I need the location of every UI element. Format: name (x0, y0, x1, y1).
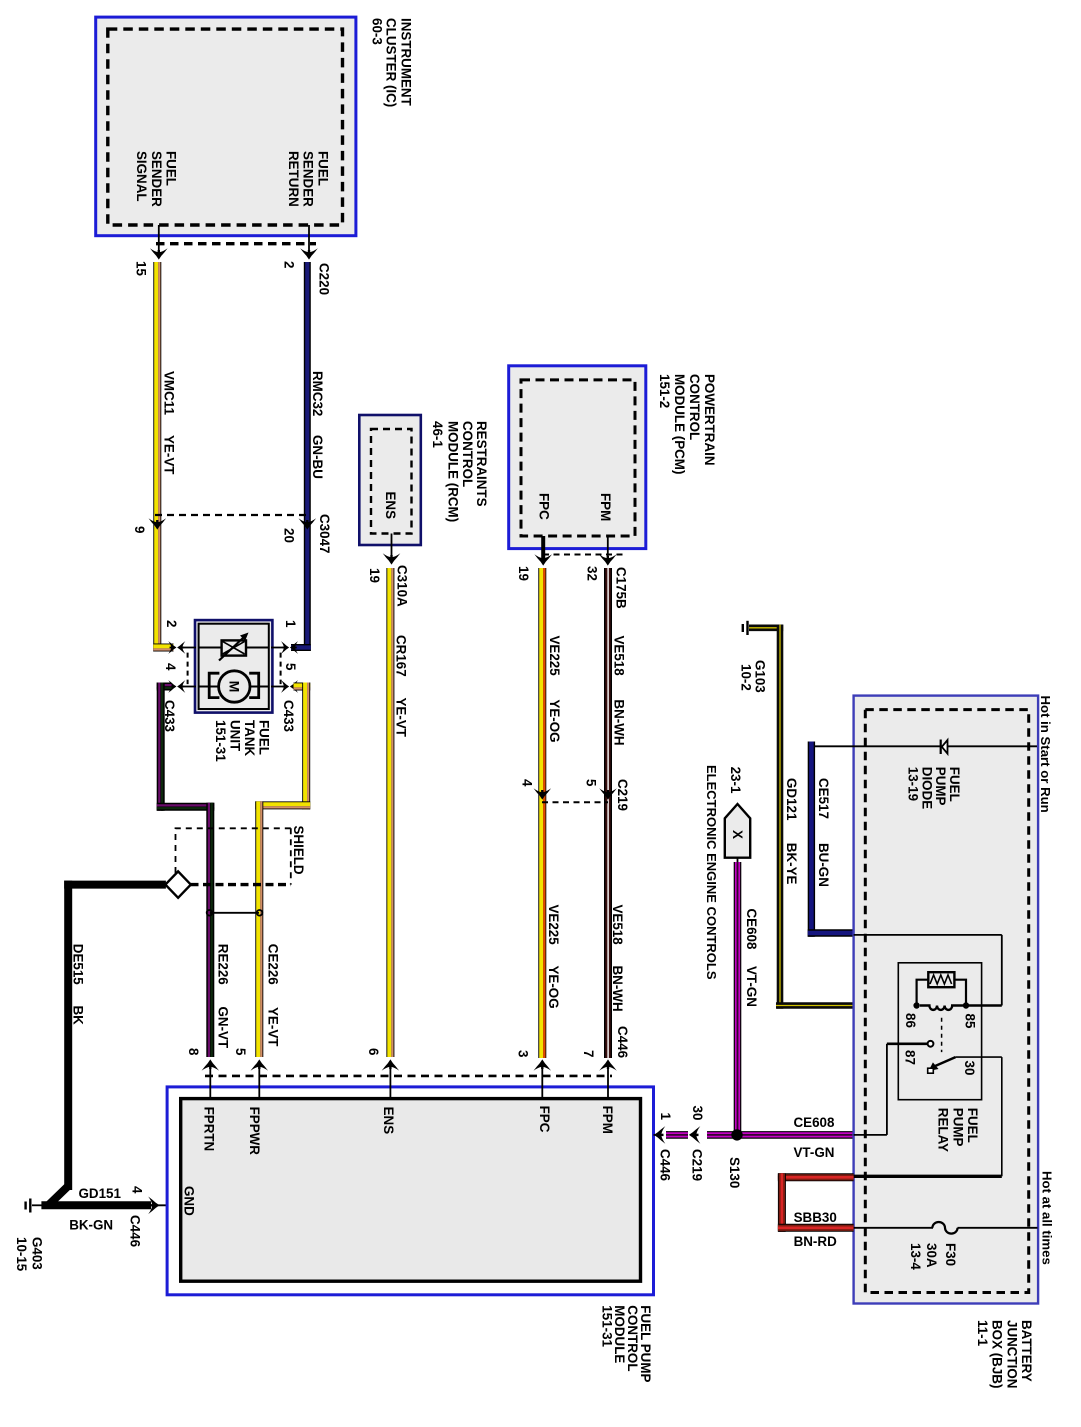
svg-text:F30: F30 (943, 1243, 958, 1266)
svg-text:SHIELD: SHIELD (291, 826, 306, 875)
svg-text:4: 4 (520, 779, 535, 787)
instrument cluster IC box 60-3 (96, 17, 356, 236)
label 23-1 (728, 767, 743, 794)
wire label CE226 YE-VT (265, 944, 280, 1047)
FTU pin2 lead and connector pair (168, 641, 196, 654)
svg-text:Hot in Start or Run: Hot in Start or Run (1038, 696, 1053, 813)
svg-text:C219: C219 (615, 779, 630, 811)
svg-text:TANK: TANK (242, 720, 257, 757)
wire VE225 YE-OG (541, 568, 544, 1058)
pin 1 label (658, 1113, 673, 1121)
FPCM pin label ENS (381, 1107, 396, 1135)
ground G103 label (738, 660, 767, 693)
RCM lead (383, 534, 401, 565)
pin 30 label (690, 1106, 705, 1121)
svg-text:151-31: 151-31 (599, 1305, 614, 1347)
svg-text:15: 15 (134, 261, 149, 276)
wire label VE518 BN-WH lower (610, 905, 625, 1012)
wire label BN-RD (794, 1234, 837, 1249)
svg-text:SIGNAL: SIGNAL (134, 151, 149, 202)
pin 5 label (283, 663, 298, 671)
wire label CE608 (near BJB) (794, 1115, 835, 1130)
fuel tank unit box 151-31 (195, 620, 272, 713)
fuel pump diode label (906, 767, 962, 809)
svg-text:151-31: 151-31 (213, 720, 228, 762)
FPCM pin label FPC (537, 1106, 552, 1133)
PCM pin label FPM (598, 493, 613, 521)
svg-text:YE-VT: YE-VT (394, 698, 409, 738)
svg-text:10-15: 10-15 (14, 1237, 29, 1272)
svg-text:YE-VT: YE-VT (162, 435, 177, 475)
connector C433 dashed right (280, 653, 282, 685)
svg-text:FPPWR: FPPWR (247, 1107, 262, 1156)
BJB title (975, 1320, 1034, 1388)
pin 1 label (283, 620, 298, 628)
wire label SBB30 (794, 1210, 837, 1225)
relay coil line (920, 1006, 1002, 1010)
wire label VE225 YE-OG lower (546, 905, 561, 1009)
svg-text:Hot at all times: Hot at all times (1040, 1171, 1055, 1265)
svg-text:GND: GND (182, 1186, 197, 1216)
PCM pin label FPC (537, 493, 552, 520)
svg-text:SENDER: SENDER (149, 151, 164, 207)
wire label CE517 BU-GN (816, 778, 831, 887)
svg-text:GN-VT: GN-VT (215, 1007, 230, 1049)
svg-text:G403: G403 (29, 1237, 44, 1270)
svg-text:GD151: GD151 (79, 1186, 122, 1201)
FPCM lead FPPWR (250, 1059, 268, 1098)
wire label VMC11 YE-VT (162, 371, 177, 475)
relay pin 85 label (963, 1014, 978, 1029)
CE608 link to relay 87 (854, 1044, 887, 1135)
pin 4 label (163, 663, 178, 671)
svg-text:3: 3 (516, 1050, 531, 1057)
connector C219 arrow (689, 1126, 700, 1144)
svg-text:JUNCTION: JUNCTION (1004, 1320, 1019, 1388)
pin 15 label (134, 261, 149, 276)
relay armature dashed link (941, 1018, 943, 1052)
FPCM pin label GND (182, 1186, 197, 1216)
svg-text:7: 7 (581, 1050, 596, 1057)
svg-text:BK: BK (71, 1006, 86, 1026)
wire label DE515 BK (71, 944, 86, 1025)
svg-text:C446: C446 (615, 1026, 630, 1058)
ground G403 label (14, 1237, 44, 1272)
wire CE608 VT-GN horizontal + S130 branch (666, 862, 853, 1135)
connector C446 label (658, 1149, 673, 1181)
svg-text:FUEL: FUEL (256, 720, 271, 755)
svg-text:C446: C446 (128, 1215, 143, 1247)
FPCM pin label FPM (600, 1106, 615, 1134)
svg-text:CE517: CE517 (816, 778, 831, 819)
pin 5 label (584, 779, 599, 787)
svg-text:MODULE (RCM): MODULE (RCM) (446, 421, 461, 522)
svg-text:19: 19 (367, 568, 382, 583)
svg-text:CONTROL: CONTROL (687, 374, 702, 440)
svg-text:BK-YE: BK-YE (784, 843, 799, 885)
RCM title (430, 421, 489, 522)
instrument cluster title (370, 18, 414, 107)
connector arrow on RMC32 at C3047 (299, 518, 317, 529)
connector C220 label (317, 263, 332, 295)
ground G103 symbol (743, 621, 748, 635)
pin 8 label (186, 1048, 201, 1056)
wire label VE225 YE-OG upper (547, 636, 562, 743)
svg-text:5: 5 (584, 779, 599, 787)
svg-text:4: 4 (163, 663, 178, 671)
svg-text:BOX (BJB): BOX (BJB) (990, 1320, 1005, 1388)
connector C310A label (395, 565, 410, 607)
svg-text:RESTRAINTS: RESTRAINTS (474, 421, 489, 507)
relay switch blade (928, 1057, 956, 1073)
pin 2 label (164, 620, 179, 627)
pin 5 label (233, 1048, 248, 1056)
svg-text:30: 30 (962, 1061, 977, 1076)
wire CE517 BU-GN (808, 742, 854, 937)
svg-text:FUEL: FUEL (164, 151, 179, 186)
connector C433 label left (162, 700, 177, 732)
svg-text:C219: C219 (690, 1149, 705, 1181)
svg-text:1: 1 (283, 620, 298, 628)
svg-text:6: 6 (366, 1048, 381, 1055)
svg-text:CE608: CE608 (794, 1115, 835, 1130)
IC lead fuel sender return (300, 225, 318, 260)
battery junction box BJB 11-1 (854, 696, 1039, 1304)
svg-text:C310A: C310A (395, 565, 410, 607)
fuel pump diode feed line (814, 745, 1037, 747)
wire CE226 YE-VT from pin5 (255, 683, 310, 1058)
wire RE226 GN-VT from pin4 (157, 683, 215, 1058)
wire label GD151 (79, 1186, 122, 1201)
wire CR167 YE-VT (389, 568, 392, 1057)
pin 19 label (516, 566, 531, 581)
fuel pump relay label (936, 1108, 980, 1152)
FPCM title (599, 1305, 653, 1382)
connector C219 label (615, 779, 630, 811)
svg-text:4: 4 (130, 1186, 145, 1194)
svg-text:20: 20 (281, 528, 296, 543)
restraints control module RCM box 46-1 (359, 415, 421, 545)
pin 4 label (520, 779, 535, 787)
FPCM pin label FPRTN (202, 1107, 217, 1152)
connector C3047 label (317, 514, 332, 553)
svg-text:C3047: C3047 (317, 514, 332, 553)
arrow into FPCM pin 1 (654, 1126, 666, 1144)
svg-text:BK-GN: BK-GN (69, 1217, 113, 1232)
connector C3047 dashed line (155, 514, 309, 516)
svg-text:BN-RD: BN-RD (794, 1234, 837, 1249)
wire VMC11 YE-VT vertical (153, 262, 173, 652)
svg-text:ENS: ENS (383, 492, 398, 520)
wire label RMC32 GN-BU (310, 371, 325, 479)
svg-text:ELECTRONIC ENGINE CONTROLS: ELECTRONIC ENGINE CONTROLS (704, 765, 719, 980)
connector C433 dashed left (187, 653, 189, 685)
wire DE515 BK thick black (41, 881, 165, 1206)
RCM pin label ENS (383, 492, 398, 520)
connector C219 arrows mid (534, 788, 617, 799)
svg-text:13-4: 13-4 (908, 1243, 923, 1270)
pin 7 label (581, 1050, 596, 1057)
svg-text:M: M (226, 681, 242, 693)
shield dashed box (176, 828, 291, 884)
shield tie line with circles (207, 910, 263, 916)
svg-text:FUEL: FUEL (965, 1108, 980, 1143)
SHIELD label (291, 826, 306, 875)
svg-text:RETURN: RETURN (286, 151, 301, 207)
svg-text:BN-WH: BN-WH (610, 966, 625, 1012)
wire label VE518 BN-WH upper (612, 636, 627, 746)
svg-text:5: 5 (283, 663, 298, 671)
powertrain control module PCM box 151-2 (509, 366, 646, 549)
ground G403 symbol (26, 1199, 42, 1213)
svg-text:151-2: 151-2 (657, 374, 672, 408)
svg-text:BN-WH: BN-WH (612, 699, 627, 745)
svg-text:85: 85 (963, 1014, 978, 1029)
svg-text:VE518: VE518 (612, 636, 627, 677)
FPCM lead FPM (599, 1059, 617, 1098)
svg-text:2: 2 (282, 261, 297, 268)
sender line inside (198, 647, 269, 649)
svg-text:VE518: VE518 (610, 905, 625, 946)
svg-text:RE226: RE226 (215, 944, 230, 985)
svg-text:PUMP: PUMP (950, 1108, 965, 1147)
svg-text:FUEL: FUEL (315, 151, 330, 186)
svg-text:10-2: 10-2 (738, 664, 753, 691)
svg-text:MODULE (PCM): MODULE (PCM) (672, 374, 687, 474)
relay pin 87 label (903, 1050, 918, 1065)
svg-text:46-1: 46-1 (430, 421, 445, 448)
svg-text:86: 86 (903, 1013, 918, 1028)
FTU pin1 lead and connector pair (271, 641, 298, 654)
wire SBB30 BN-RD (778, 1173, 854, 1232)
fuel pump motor M (209, 671, 259, 702)
svg-text:13-19: 13-19 (906, 767, 921, 801)
svg-text:VE225: VE225 (547, 636, 562, 677)
shield drain diamond (165, 871, 190, 897)
svg-text:CLUSTER (IC): CLUSTER (IC) (384, 18, 399, 107)
svg-text:11-1: 11-1 (975, 1320, 990, 1347)
svg-text:GD121: GD121 (784, 778, 799, 821)
svg-text:1: 1 (658, 1113, 673, 1121)
svg-text:SENDER: SENDER (301, 151, 316, 207)
pin 32 label (585, 566, 600, 581)
svg-text:9: 9 (132, 526, 147, 533)
connector C446 label top (615, 1026, 630, 1058)
svg-text:BATTERY: BATTERY (1019, 1320, 1034, 1382)
svg-text:FPM: FPM (598, 493, 613, 521)
pin 6 label (366, 1048, 381, 1055)
svg-text:YE-OG: YE-OG (547, 699, 562, 742)
label Hot in Start or Run (1038, 696, 1053, 813)
svg-text:DE515: DE515 (71, 944, 86, 985)
relay pin 30 label (962, 1061, 977, 1076)
svg-text:RMC32: RMC32 (310, 371, 325, 416)
wire label CR167 YE-VT (394, 635, 409, 738)
pin 20 label (281, 528, 296, 543)
off-page connector X (electronic engine controls) (725, 804, 750, 862)
svg-text:ENS: ENS (381, 1107, 396, 1135)
svg-text:C220: C220 (317, 263, 332, 295)
svg-text:VT-GN: VT-GN (744, 966, 759, 1007)
wire label RE226 GN-VT (215, 944, 230, 1049)
wire label VT-GN (near BJB) (794, 1145, 835, 1160)
pin 9 label (132, 526, 147, 533)
svg-text:87: 87 (903, 1050, 918, 1065)
PCM FPC lead (534, 536, 552, 566)
relay coil junction dots (913, 1002, 969, 1008)
svg-text:CE608: CE608 (744, 909, 759, 950)
wire GD121 BK-YE (749, 625, 917, 1009)
svg-text:30: 30 (690, 1106, 705, 1121)
label Hot at all times (1040, 1171, 1055, 1265)
connector C175B label (614, 567, 629, 609)
pin label FUEL SENDER SIGNAL (134, 151, 179, 207)
connector C219 label (690, 1149, 705, 1181)
svg-text:GN-BU: GN-BU (310, 435, 325, 479)
relay 30 feed bottom line (854, 1175, 1002, 1178)
svg-text:60-3: 60-3 (370, 18, 385, 45)
svg-text:YE-OG: YE-OG (546, 966, 561, 1009)
svg-text:POWERTRAIN: POWERTRAIN (702, 374, 717, 466)
fuse F30 30A 13-4 label (908, 1243, 958, 1270)
svg-text:32: 32 (585, 566, 600, 581)
svg-text:SBB30: SBB30 (794, 1210, 837, 1225)
PCM FPM lead (599, 536, 617, 566)
svg-text:CE226: CE226 (265, 944, 280, 985)
FPCM lead FPRTN (202, 1059, 220, 1098)
connector C220 dashed line (156, 242, 316, 245)
relay pin 86 label (903, 1013, 918, 1028)
pin 3 label (516, 1050, 531, 1057)
svg-text:30A: 30A (924, 1243, 939, 1268)
fuel pump relay box (898, 963, 981, 1100)
IC lead fuel sender signal (150, 225, 168, 260)
fuel pump control module FPCM box 151-31 (167, 1087, 653, 1295)
wire label GD121 BK-YE (784, 778, 799, 885)
svg-text:X: X (730, 830, 745, 839)
svg-text:INSTRUMENT: INSTRUMENT (399, 18, 414, 107)
label ELECTRONIC ENGINE CONTROLS (704, 765, 719, 980)
svg-text:RELAY: RELAY (936, 1108, 951, 1152)
splice S130 dot (731, 1129, 742, 1140)
connector C219 dashed line mid (542, 801, 608, 803)
pin label FUEL SENDER RETURN (286, 151, 331, 207)
svg-text:FPM: FPM (600, 1106, 615, 1134)
svg-text:23-1: 23-1 (728, 767, 743, 794)
svg-text:G103: G103 (752, 660, 767, 693)
connector C446 dashed line on FPCM (205, 1075, 612, 1078)
pin 2 label (282, 261, 297, 268)
svg-text:CONTROL: CONTROL (460, 421, 475, 487)
svg-text:19: 19 (516, 566, 531, 581)
FTU pin5 lead and connector pair (271, 680, 298, 693)
GND arrow into FPCM (148, 1197, 181, 1215)
fuse F30 feed line (854, 1227, 1038, 1229)
fuel tank unit title (213, 720, 271, 762)
svg-text:VT-GN: VT-GN (794, 1145, 835, 1160)
svg-text:8: 8 (186, 1048, 201, 1056)
pin 4 label (GND) (130, 1186, 145, 1194)
connector C446 label (GND) (128, 1215, 143, 1247)
FPCM lead FPC (534, 1059, 552, 1098)
connector C175B dashed line (543, 554, 625, 556)
fuel level sender (variable resistor) (219, 633, 249, 661)
svg-text:UNIT: UNIT (227, 720, 242, 752)
svg-text:C446: C446 (658, 1149, 673, 1181)
connector arrow on VMC11 at C3047 (149, 518, 167, 529)
svg-text:FPC: FPC (537, 493, 552, 520)
svg-text:VE225: VE225 (546, 905, 561, 946)
wire label BK-GN (69, 1217, 113, 1232)
svg-text:VMC11: VMC11 (162, 371, 177, 415)
svg-text:C175B: C175B (614, 567, 629, 609)
svg-text:5: 5 (233, 1048, 248, 1056)
relay pin 87 line with contact circle (887, 1041, 933, 1047)
relay resistor (928, 972, 954, 987)
FPCM pin label FPPWR (247, 1107, 262, 1156)
connector C433 label right (281, 700, 296, 732)
motor line inside (198, 686, 269, 688)
CE517 link to relay (854, 935, 1002, 1006)
PCM title (657, 374, 717, 474)
relay pin 30 link (956, 1057, 1002, 1176)
svg-text:C433: C433 (281, 700, 296, 732)
FTU pin4 lead and connector pair (168, 680, 196, 693)
fuel pump diode symbol (941, 740, 948, 755)
wire label CE608 VT-GN vertical (744, 909, 759, 1007)
wire RMC32 GN-BU vertical (291, 262, 311, 651)
pin 19 label (C310A) (367, 568, 382, 583)
splice S130 label (727, 1157, 742, 1188)
svg-text:2: 2 (164, 620, 179, 627)
FPCM lead ENS (382, 1059, 400, 1098)
svg-text:FPC: FPC (537, 1106, 552, 1133)
wire VE518 BN-WH (604, 568, 612, 1058)
relay resistor leads (917, 980, 966, 1003)
svg-text:FPRTN: FPRTN (202, 1107, 217, 1152)
svg-text:CR167: CR167 (394, 635, 409, 677)
svg-text:S130: S130 (727, 1157, 742, 1188)
svg-text:YE-VT: YE-VT (265, 1007, 280, 1047)
svg-text:BU-GN: BU-GN (816, 843, 831, 887)
fuse F30 symbol (932, 1222, 957, 1234)
